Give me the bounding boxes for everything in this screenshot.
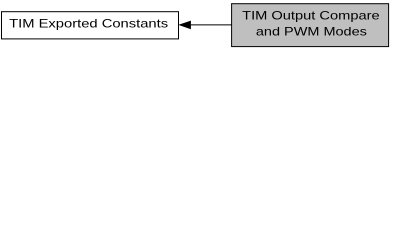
- node: TIM Exported Constants box: [2, 12, 179, 39]
- wire: dependency edge from right node to left node: [190, 24, 232, 26]
- svg-text:TIM Output Compare: TIM Output Compare: [242, 9, 380, 23]
- svg-text:and PWM Modes: and PWM Modes: [256, 25, 367, 39]
- svg-text:TIM Exported Constants: TIM Exported Constants: [9, 17, 168, 31]
- node: TIM Output Compare and PWM Modes box: [232, 4, 389, 47]
- arrowhead pointing left at left node border: [180, 21, 191, 28]
